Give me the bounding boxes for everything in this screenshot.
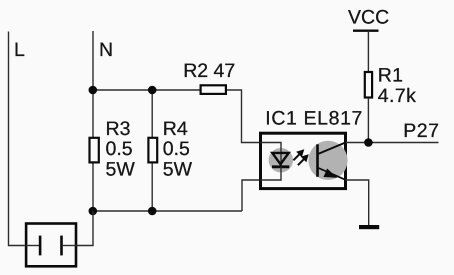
phototransistor Q1 emitter line	[319, 168, 346, 180]
phototransistor Q1 collector line	[319, 143, 346, 154]
wire collector node to P27	[346, 142, 439, 144]
svg-text:5W: 5W	[106, 158, 136, 180]
wire R1 to P27 node	[367, 99, 369, 143]
wire R2 to optocoupler anode	[227, 90, 261, 143]
LED D1 background circle	[269, 148, 293, 172]
svg-text:R4: R4	[163, 118, 188, 140]
phototransistor Q1 base bar	[316, 144, 319, 177]
svg-text:P27: P27	[403, 120, 439, 142]
svg-text:R2 47: R2 47	[183, 60, 235, 82]
LED D1 cathode wire inside IC1	[261, 167, 282, 180]
plug P1 right pin bar	[60, 236, 63, 256]
junction dot top on N line	[89, 86, 98, 95]
wire top rail	[93, 89, 200, 91]
resistor R1 body	[365, 72, 372, 98]
resistor R2 body	[201, 85, 226, 94]
plug P1 left pin wire	[26, 245, 39, 247]
wire VCC to R1	[367, 31, 369, 71]
resistor R3 body	[90, 138, 99, 163]
phototransistor Q1 emitter arrowhead	[324, 169, 338, 178]
plug P1 (mains socket) box	[26, 224, 76, 267]
light arrow 1	[293, 149, 304, 160]
wire N vertical line	[92, 31, 94, 211]
wire R4 branch	[151, 90, 153, 211]
svg-text:VCC: VCC	[348, 7, 389, 29]
svg-text:4.7k: 4.7k	[378, 85, 416, 107]
LED D1 anode wire inside IC1	[261, 143, 282, 167]
svg-text:L: L	[14, 39, 25, 61]
junction dot bottom on N line	[89, 207, 98, 216]
svg-text:R1: R1	[378, 64, 404, 86]
svg-text:IC1 EL817: IC1 EL817	[265, 108, 363, 130]
wire L vertical line	[9, 32, 25, 246]
wire emitter to ground	[346, 180, 369, 225]
plug P1 left pin bar	[39, 236, 42, 256]
LED D1 triangle	[272, 153, 288, 164]
svg-text:5W: 5W	[163, 158, 193, 180]
svg-text:N: N	[99, 39, 113, 61]
junction dot P27 node	[364, 138, 373, 147]
svg-text:0.5: 0.5	[163, 138, 190, 160]
svg-text:0.5: 0.5	[106, 138, 133, 160]
junction dot bottom on R4 branch	[148, 207, 157, 216]
svg-text:R3: R3	[106, 118, 131, 140]
optocoupler IC1 box	[261, 133, 346, 188]
junction dot top on R4 branch	[148, 86, 157, 95]
plug P1 right pin wire	[63, 245, 77, 247]
wire bottom rail	[93, 210, 242, 212]
resistor R4 body	[148, 138, 157, 163]
LED D1 cathode bar	[272, 165, 289, 168]
power symbol VCC bar	[353, 30, 379, 32]
phototransistor Q1 background circle	[308, 141, 347, 180]
wire plug to bottom rail	[77, 211, 94, 246]
ground symbol bar	[359, 225, 379, 229]
wire optocoupler cathode return	[242, 180, 261, 211]
light arrow 2	[298, 154, 309, 165]
